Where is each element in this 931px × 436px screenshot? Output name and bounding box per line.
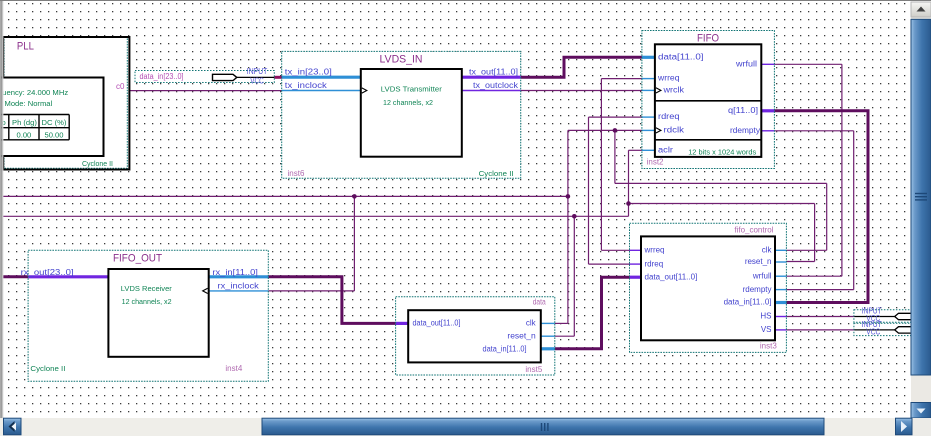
wire wrreq vertical xyxy=(600,79,602,251)
stub fifo rdempty xyxy=(761,130,774,132)
wire clk net A xyxy=(3,195,568,197)
stub data data_out xyxy=(396,322,409,325)
svg-text:VCC: VCC xyxy=(866,327,880,336)
svg-text:aclr: aclr xyxy=(658,145,673,154)
wire data reset_n horiz xyxy=(555,335,575,337)
wire rdempty horiz xyxy=(774,130,853,132)
bus tx_out segment xyxy=(521,57,642,77)
boundary fifo xyxy=(642,31,775,169)
symbol area fout xyxy=(28,250,268,381)
wire wrfull vertical xyxy=(841,64,843,276)
svg-text:Mode: Normal: Mode: Normal xyxy=(5,99,53,108)
wire clk branch drop2 xyxy=(826,183,828,250)
bus data_in to fifo_control xyxy=(555,277,630,349)
svg-text:Cyclone II: Cyclone II xyxy=(30,364,65,373)
wire reset net C xyxy=(629,203,815,205)
vscroll grip xyxy=(915,193,927,195)
wire HS xyxy=(786,316,854,318)
stub tx_out xyxy=(462,76,521,79)
svg-text:inst3: inst3 xyxy=(760,342,777,351)
svg-text:data: data xyxy=(533,298,546,307)
wire wrfull horiz xyxy=(774,63,842,65)
svg-text:12 bits x 1024 words: 12 bits x 1024 words xyxy=(688,147,756,156)
fifo divider1 xyxy=(655,100,761,102)
junction rdclk branch xyxy=(613,128,618,133)
wire clk branch drop xyxy=(614,130,616,183)
wire tx_outclock to wrclk xyxy=(521,90,642,92)
wire rdreq vertical xyxy=(588,117,590,264)
pin VS symbol xyxy=(895,327,912,333)
clock marker rdclk xyxy=(656,128,661,133)
bus data_in pin stub xyxy=(274,76,282,79)
svg-text:VCC: VCC xyxy=(250,77,264,86)
svg-text:tx_inclock: tx_inclock xyxy=(285,81,328,90)
pin VS wire xyxy=(854,329,894,331)
wire VS xyxy=(786,329,854,331)
svg-text:inst2: inst2 xyxy=(647,157,664,166)
stub fc data_in xyxy=(775,301,786,304)
hscroll track xyxy=(0,418,931,436)
svg-text:Ph (dg): Ph (dg) xyxy=(12,118,37,127)
svg-text:Cyclone II: Cyclone II xyxy=(479,169,514,178)
stub fc VS xyxy=(775,329,786,331)
stub fc wrreq xyxy=(630,249,642,251)
junction clkA-rxinclock xyxy=(352,194,357,199)
pll table xyxy=(0,114,69,116)
pin data_in symbol xyxy=(213,74,237,80)
wire reset_n into fifo_control xyxy=(786,261,814,263)
svg-text:inst5: inst5 xyxy=(525,365,542,374)
stub pll c0 xyxy=(104,90,128,92)
wire rdreq bottom xyxy=(589,263,630,265)
stub fifo rdreq xyxy=(642,116,655,118)
stub fc data_out xyxy=(630,276,642,279)
clock marker tx_inclock xyxy=(362,88,367,93)
lvds_in box xyxy=(361,69,462,157)
pin data_in dashed box xyxy=(135,71,274,83)
stub tx_inclock xyxy=(282,90,361,92)
symbol area lvds xyxy=(282,51,521,178)
svg-text:PLL: PLL xyxy=(17,41,34,53)
junction clkA-rdclk xyxy=(566,194,571,199)
stub fifo wrreq xyxy=(642,78,655,80)
stub fifo rdclk xyxy=(642,129,655,131)
symbol area data xyxy=(396,297,555,375)
bus rx_out xyxy=(3,275,28,278)
stub fifo aclr xyxy=(642,149,655,151)
svg-text:reset_n: reset_n xyxy=(745,257,772,266)
stub fifo wrclk xyxy=(642,89,655,91)
stub tx_in xyxy=(282,76,361,79)
hscroll thumb xyxy=(262,418,824,435)
fc box xyxy=(641,236,775,340)
wire rdclk horiz xyxy=(568,129,642,131)
pll boundary dashed xyxy=(4,38,127,169)
svg-text:reset_n: reset_n xyxy=(507,331,535,340)
svg-text:wrfull: wrfull xyxy=(752,271,772,280)
svg-text:rx_out[23..0]: rx_out[23..0] xyxy=(21,268,74,277)
svg-text:tx_outclock: tx_outclock xyxy=(473,81,519,90)
pll param box xyxy=(0,78,104,157)
svg-text:wrreq: wrreq xyxy=(657,74,680,83)
svg-text:LVDS Transmitter: LVDS Transmitter xyxy=(381,85,442,94)
svg-text:clk: clk xyxy=(526,319,537,328)
fifo_out box xyxy=(108,269,208,357)
svg-text:rdreq: rdreq xyxy=(645,259,664,268)
wire reset net B xyxy=(3,215,629,217)
svg-text:tx_in[23..0]: tx_in[23..0] xyxy=(285,68,332,77)
stub tx_outclock xyxy=(462,90,521,92)
data box xyxy=(408,310,541,362)
fifo divider2 xyxy=(655,139,761,141)
stub rx_inclock xyxy=(209,290,269,292)
svg-text:fifo_control: fifo_control xyxy=(734,225,773,234)
stub fifo data xyxy=(642,56,655,59)
window top border xyxy=(0,0,931,2)
bus q to data_in xyxy=(774,111,868,303)
junction resetBC-aclr xyxy=(626,201,631,206)
svg-text:wrclk: wrclk xyxy=(662,86,685,95)
wire reset net C drop xyxy=(814,204,816,262)
svg-text:0.00: 0.00 xyxy=(17,130,32,139)
svg-text:DC (%): DC (%) xyxy=(42,118,67,127)
stub fc HS xyxy=(775,316,786,318)
symbol area pll xyxy=(3,37,129,170)
svg-text:Cyclone II: Cyclone II xyxy=(82,159,113,168)
vscroll up button xyxy=(911,2,931,17)
wire rdclk-clk vertical xyxy=(567,130,569,323)
svg-text:12 channels, x2: 12 channels, x2 xyxy=(383,98,433,107)
svg-text:clk: clk xyxy=(762,246,773,255)
pin label area data_in xyxy=(135,71,274,83)
vscroll thumb xyxy=(911,19,931,375)
svg-text:wrreq: wrreq xyxy=(644,246,665,255)
vscroll track xyxy=(911,2,931,418)
stub fifo q xyxy=(761,109,774,112)
svg-text:HS: HS xyxy=(760,312,771,321)
svg-text:50.00: 50.00 xyxy=(44,130,63,139)
stub fc wrfull xyxy=(775,275,786,277)
wire wrfull bottom xyxy=(786,275,842,277)
wire rdreq top xyxy=(589,116,642,118)
svg-text:12 channels, x2: 12 channels, x2 xyxy=(122,297,172,306)
pin HS dashed box xyxy=(854,310,911,322)
stub fc clk xyxy=(775,249,786,251)
pin HS wire xyxy=(854,316,894,318)
stub fifo wrfull xyxy=(761,63,774,65)
symbol area fc xyxy=(630,223,787,352)
wire rx_inclock horiz xyxy=(268,290,354,292)
window left border xyxy=(0,1,1,436)
wire wrreq bottom xyxy=(601,249,629,251)
svg-text:data_in[11..0]: data_in[11..0] xyxy=(724,298,772,307)
svg-text:data_in[11..0]: data_in[11..0] xyxy=(483,345,527,354)
svg-text:wrfull: wrfull xyxy=(735,59,757,68)
wire c0 to tx_inclock xyxy=(127,90,281,92)
pll symbol fill xyxy=(3,37,129,170)
svg-text:FIFO: FIFO xyxy=(697,32,719,44)
junction resetB-datareset xyxy=(572,214,577,219)
pin area VS xyxy=(854,323,911,336)
svg-text:rdreq: rdreq xyxy=(658,112,680,121)
hscroll right button xyxy=(896,418,913,435)
vscroll down button xyxy=(911,403,931,419)
wire data clk horiz xyxy=(555,322,568,324)
hscroll left button xyxy=(4,418,22,435)
pin area HS xyxy=(854,310,911,322)
bus rx_in to data_out xyxy=(268,277,395,324)
boundary fout xyxy=(28,250,268,381)
stub data reset_n xyxy=(541,335,555,337)
wire reset net B riser xyxy=(628,204,630,217)
stub data clk xyxy=(541,322,555,324)
svg-text:INPUT: INPUT xyxy=(247,67,268,76)
svg-text:data_out[11..0]: data_out[11..0] xyxy=(413,319,461,328)
svg-text:tx_out[11..0]: tx_out[11..0] xyxy=(469,68,518,77)
svg-text:data_out[11..0]: data_out[11..0] xyxy=(645,272,698,281)
wire data reset_n drop xyxy=(573,216,575,336)
stub rx_in xyxy=(209,275,269,278)
svg-text:rdclk: rdclk xyxy=(664,126,686,135)
svg-text:rx_inclock: rx_inclock xyxy=(218,281,260,290)
hscroll grip xyxy=(541,423,543,431)
wire aclr vertical xyxy=(628,150,630,203)
stub fc rdempty xyxy=(775,289,786,291)
svg-text:LVDS_IN: LVDS_IN xyxy=(380,54,423,66)
wire clk branch horiz xyxy=(615,182,827,184)
boundary data xyxy=(396,297,555,375)
svg-text:data_in[23..0]: data_in[23..0] xyxy=(140,72,184,81)
stub rx_out xyxy=(28,275,108,278)
fifo box xyxy=(655,44,761,157)
wire rdempty bottom xyxy=(786,289,853,291)
wire wrreq top xyxy=(601,78,642,80)
svg-text:inst4: inst4 xyxy=(225,364,242,373)
stub fc reset_n xyxy=(775,261,786,263)
svg-text:data[11..0]: data[11..0] xyxy=(658,52,704,61)
svg-text:FIFO_OUT: FIFO_OUT xyxy=(113,253,162,265)
svg-text:inst6: inst6 xyxy=(288,169,305,178)
svg-text:q[11..0]: q[11..0] xyxy=(728,106,758,115)
scroll corner xyxy=(913,418,931,436)
boundary lvds xyxy=(282,51,521,178)
svg-text:rdempty: rdempty xyxy=(730,126,760,135)
svg-text:c0: c0 xyxy=(116,82,125,91)
boundary fc xyxy=(630,223,787,352)
stub data data_in xyxy=(541,347,555,350)
wire rx_inclock drop xyxy=(353,196,355,291)
svg-text:rdempty: rdempty xyxy=(743,285,772,294)
clock marker rx_inclock xyxy=(203,288,208,293)
pin VS dashed box xyxy=(854,323,911,335)
pin HS symbol xyxy=(895,313,912,319)
svg-text:rx_in[11..0]: rx_in[11..0] xyxy=(212,268,258,277)
svg-text:LVDS Receiver: LVDS Receiver xyxy=(121,284,172,293)
wire rdempty vertical xyxy=(853,131,855,290)
wire clk into fifo_control xyxy=(786,249,826,251)
pll symbol box xyxy=(3,37,129,170)
svg-text:uency: 24.000 MHz: uency: 24.000 MHz xyxy=(2,88,68,97)
wire aclr horiz xyxy=(629,149,642,151)
svg-text:VS: VS xyxy=(761,325,772,334)
symbol area fifo xyxy=(642,31,775,169)
clock marker wrclk xyxy=(656,88,661,93)
stub fc rdreq xyxy=(630,263,642,265)
